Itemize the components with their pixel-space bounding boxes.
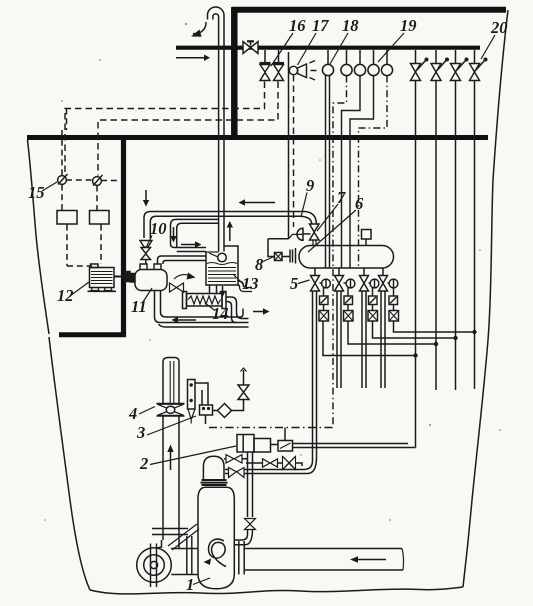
- svg-text:17: 17: [312, 16, 329, 35]
- svg-text:18: 18: [342, 16, 359, 35]
- svg-text:12: 12: [57, 286, 74, 305]
- svg-text:20: 20: [490, 18, 508, 37]
- svg-text:16: 16: [289, 16, 306, 35]
- svg-text:14: 14: [212, 304, 229, 323]
- svg-text:2: 2: [139, 454, 148, 473]
- svg-text:3: 3: [136, 423, 145, 442]
- svg-text:13: 13: [242, 274, 259, 293]
- svg-text:4: 4: [128, 404, 137, 423]
- svg-text:5: 5: [290, 274, 298, 293]
- svg-text:6: 6: [355, 194, 364, 213]
- svg-text:15: 15: [28, 183, 45, 202]
- svg-text:19: 19: [400, 16, 417, 35]
- svg-text:8: 8: [255, 255, 263, 274]
- svg-text:9: 9: [306, 176, 314, 195]
- svg-text:10: 10: [150, 219, 167, 238]
- svg-text:7: 7: [337, 188, 346, 207]
